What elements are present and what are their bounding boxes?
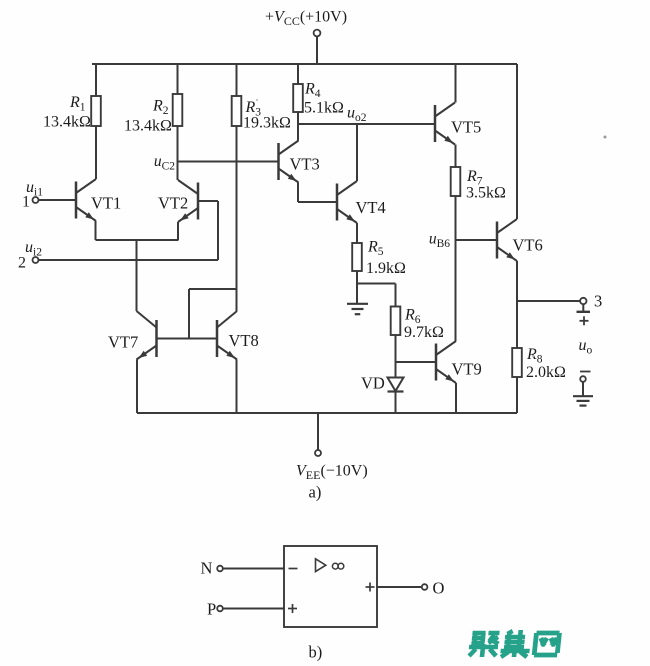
wire: junction to ground <box>356 284 358 304</box>
wire: rail to R2 <box>177 64 179 94</box>
transistor VT9 <box>436 341 456 383</box>
svg-text:13.4kΩ: 13.4kΩ <box>43 114 91 131</box>
wire: R3 down to VT8 collector <box>236 126 238 311</box>
plus plate mark <box>577 304 591 312</box>
svg-text:P: P <box>207 600 216 619</box>
resistor R6 <box>391 307 401 336</box>
label 13.4k <box>43 114 91 131</box>
diode VD <box>388 378 404 392</box>
wire: VT5 collector to rail <box>455 64 457 103</box>
wire: node uo2 to VT5 base <box>298 123 435 125</box>
wire: node uC2 to VT3 base <box>178 161 279 163</box>
resistor R8 <box>512 348 522 377</box>
ground (below R5) <box>347 304 368 314</box>
svg-text:VT9: VT9 <box>452 360 482 379</box>
label 3 <box>594 292 602 311</box>
wire: VT2 base right-down-left to terminal 2 <box>39 201 219 260</box>
op-amp box <box>284 546 377 627</box>
svg-text:R1: R1 <box>69 94 86 114</box>
wire: VT4 emitter to R5 <box>356 223 358 243</box>
wire: base node to diode VD <box>395 362 397 378</box>
label O <box>433 579 445 598</box>
label a) <box>309 483 322 502</box>
svg-text:uB6: uB6 <box>429 231 450 251</box>
transistor VT8 <box>217 311 237 360</box>
wire: VT6 emitter to output node <box>516 261 518 301</box>
label P <box>207 600 216 619</box>
svg-text:VD: VD <box>361 374 385 393</box>
triangle-infinity gain symbol <box>316 559 344 572</box>
wire: output node to terminal 3 <box>517 300 580 302</box>
terminal 1 u_i1 <box>33 197 77 203</box>
label 3.5k <box>466 185 506 202</box>
label VT3 <box>290 155 320 174</box>
inverting input - mark <box>289 568 298 570</box>
svg-text:R8: R8 <box>526 346 543 366</box>
label VT8 <box>229 331 259 350</box>
wire: VT7-VT8 base rail <box>157 338 218 340</box>
wire: VT1 emitter down <box>95 221 97 240</box>
svg-text:1: 1 <box>22 194 30 211</box>
svg-text:13.4kΩ: 13.4kΩ <box>124 118 172 135</box>
label R2 <box>152 98 169 118</box>
ground (output) <box>573 396 593 405</box>
transistor VT1 <box>76 179 96 221</box>
label VT1 <box>91 194 121 213</box>
scan speck <box>256 99 607 357</box>
wire: VT7 emitter to bottom rail <box>136 360 138 414</box>
wire: R7 down through uB6 to VT9 collector <box>455 196 457 341</box>
wire: R8 to bottom rail <box>516 377 518 413</box>
wire: VT9 base wire <box>396 361 437 363</box>
label VT5 <box>451 118 481 137</box>
wire: R5 bottom junction <box>357 271 396 284</box>
terminal output ground <box>580 376 586 396</box>
wire: VT9 emitter to bottom rail <box>455 383 457 413</box>
resistor R1 <box>91 96 101 126</box>
terminal N <box>217 566 284 572</box>
wire: VT2 emitter down <box>177 222 179 240</box>
label uB6 <box>429 231 450 251</box>
label VEE(-10V) <box>296 463 368 483</box>
label u_i1 <box>26 179 43 199</box>
wire: diode cathode to bottom rail <box>395 392 397 414</box>
wire: node uC2 to VT2 collector <box>177 162 179 181</box>
resistor R5 <box>352 243 362 271</box>
wire: op-amp output <box>377 586 422 588</box>
wire: R1 to VT1 collector <box>95 126 97 179</box>
resistor R2 <box>173 94 183 126</box>
svg-text:1.9kΩ: 1.9kΩ <box>366 260 406 277</box>
terminal 3 <box>580 298 586 304</box>
wire: VT4 collector up to node uo2 <box>356 124 358 181</box>
label VT2 <box>158 194 188 213</box>
label b) <box>309 643 323 662</box>
label u_i2 <box>25 239 42 259</box>
wire: R2 to node uC2 <box>177 126 179 162</box>
label 1 <box>22 194 30 211</box>
resistor R4 <box>293 84 303 112</box>
label uC2 <box>154 153 175 173</box>
label R6 <box>404 307 421 327</box>
wire: VT3 emitter to VT4 base <box>298 183 337 203</box>
svg-text:2.0kΩ: 2.0kΩ <box>526 364 566 381</box>
transistor VT3 <box>279 141 299 183</box>
transistor VT5 <box>435 103 455 145</box>
svg-text:O: O <box>433 579 445 598</box>
label R5 <box>367 239 384 259</box>
wire: VT1/VT2 emitter rail <box>96 239 179 241</box>
label R4 <box>304 81 321 101</box>
label 13.4k (R2) <box>124 118 172 135</box>
watermark logo <box>468 630 560 657</box>
wire: R6 to VT9 base node <box>395 335 397 362</box>
svg-text:R4: R4 <box>304 81 321 101</box>
label 19.3k <box>243 115 291 132</box>
label 5.1k <box>304 100 344 117</box>
label VT7 <box>108 333 138 352</box>
svg-text:19.3kΩ: 19.3kΩ <box>243 115 291 132</box>
svg-text:VEE(−10V): VEE(−10V) <box>296 463 368 483</box>
transistor VT7 <box>137 311 157 360</box>
wire: rail to R4 <box>297 64 299 84</box>
label VT9 <box>452 360 482 379</box>
label 9.7k <box>404 324 444 341</box>
label R1 <box>69 94 86 114</box>
svg-text:VT1: VT1 <box>91 194 121 213</box>
svg-text:uC2: uC2 <box>154 153 175 173</box>
svg-text:2: 2 <box>18 255 26 272</box>
transistor VT6 <box>497 219 517 261</box>
svg-text:N: N <box>201 559 213 578</box>
svg-text:uo2: uo2 <box>347 105 367 125</box>
transistor VT4 <box>337 181 357 223</box>
label R8 <box>526 346 543 366</box>
terminal -VEE <box>315 413 321 456</box>
svg-text:VT6: VT6 <box>513 236 543 255</box>
svg-text:VT8: VT8 <box>229 331 259 350</box>
wire: rail to R3 <box>236 64 238 96</box>
label VD <box>361 374 385 393</box>
label R3 <box>245 99 262 119</box>
label VT6 <box>513 236 543 255</box>
label N <box>201 559 213 578</box>
wire: base-collector tie of VT8 <box>189 289 237 339</box>
wire: VT5 emitter to R7 <box>455 145 457 168</box>
svg-text:VT5: VT5 <box>451 118 481 137</box>
svg-text:uo: uo <box>579 337 593 357</box>
svg-text:a): a) <box>309 483 322 502</box>
svg-text:b): b) <box>309 643 323 662</box>
resistor R3 <box>232 96 242 126</box>
svg-text:VT2: VT2 <box>158 194 188 213</box>
noninverting input + mark <box>288 604 297 613</box>
label uo2 <box>347 105 367 125</box>
svg-text:ui2: ui2 <box>25 239 42 259</box>
wire: rail to R1 <box>95 64 97 96</box>
label +VCC(+10V) <box>265 9 347 29</box>
svg-text:R5: R5 <box>367 239 384 259</box>
wire: -VEE bottom rail <box>137 412 517 414</box>
wire: node uo2 to VT3 collector <box>297 124 299 141</box>
wire: junction to R6 <box>395 284 397 307</box>
svg-text:3: 3 <box>594 292 602 311</box>
wire: +VCC top supply rail <box>92 63 517 65</box>
label VT4 <box>356 198 386 217</box>
output + mark <box>366 583 375 592</box>
svg-text:VT3: VT3 <box>290 155 320 174</box>
label + (output polarity) <box>580 316 589 325</box>
label u_o <box>579 337 593 357</box>
label 2.0k <box>526 364 566 381</box>
wire: VT6 collector to rail <box>516 64 518 219</box>
transistor VT2 <box>178 180 198 222</box>
label 1.9k <box>366 260 406 277</box>
wire: output node to R8 <box>516 301 518 348</box>
svg-text:3.5kΩ: 3.5kΩ <box>466 185 506 202</box>
label 2 <box>18 255 26 272</box>
svg-text:5.1kΩ: 5.1kΩ <box>304 100 344 117</box>
terminal +VCC <box>314 30 321 64</box>
svg-text:VT4: VT4 <box>356 198 386 217</box>
svg-text:R2: R2 <box>152 98 169 118</box>
svg-text:9.7kΩ: 9.7kΩ <box>404 324 444 341</box>
terminal P <box>217 606 284 612</box>
wire: VT8 emitter to bottom rail <box>236 360 238 414</box>
wire: emitter rail tap down to VT7 collector <box>136 240 138 311</box>
svg-text:VT7: VT7 <box>108 333 138 352</box>
label R7 <box>466 168 483 188</box>
svg-text:+VCC(+10V): +VCC(+10V) <box>265 9 347 29</box>
terminal O <box>422 584 428 590</box>
wire: R4 to node uo2 <box>297 112 299 124</box>
terminal 2 u_i2 <box>33 257 39 263</box>
wire: node uB6 to VT6 base <box>456 239 498 241</box>
label - (output polarity) <box>580 371 591 373</box>
resistor R7 <box>451 167 461 196</box>
